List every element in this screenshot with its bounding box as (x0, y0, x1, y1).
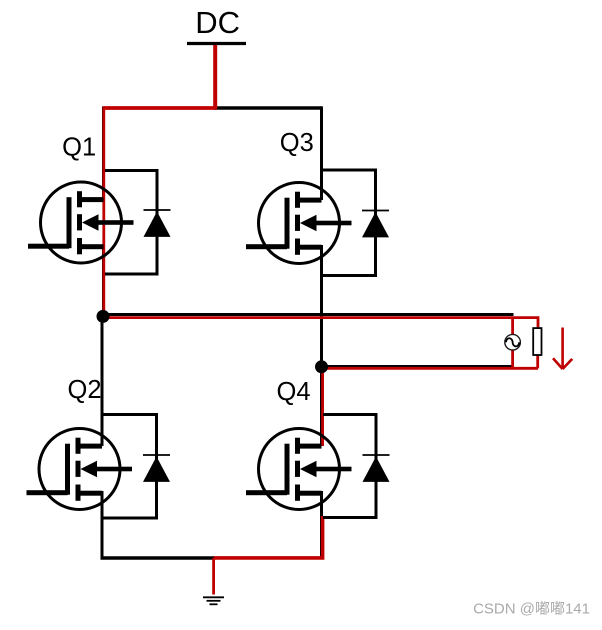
red current path: ground stub (212, 558, 215, 595)
svg-text:Q4: Q4 (276, 378, 310, 406)
red current path: top rail left segment (104, 106, 217, 110)
DC supply bar (187, 42, 246, 45)
svg-text:Q2: Q2 (67, 376, 101, 404)
wire: Q3 drain lead (320, 106, 323, 200)
red current path: AC source branch bottom (511, 350, 514, 369)
wire: Q3 source lead (320, 245, 323, 368)
red current path: node A right to resistor branch (104, 318, 538, 329)
red current path: top rail left then down through Q1 to node A (102, 106, 105, 316)
transistor Q3 (246, 183, 352, 264)
transistor Q4 (246, 429, 352, 510)
ground (203, 597, 224, 604)
red current path: Q4 source to bottom rail to ground stub (214, 516, 323, 558)
body diode D4 (323, 415, 390, 518)
AC source V1 (505, 334, 521, 350)
resistor R1 (load) (533, 328, 541, 355)
wire: node B to load bottom (322, 365, 514, 368)
wire: Q1 drain lead (102, 106, 105, 200)
svg-text:DC: DC (195, 5, 240, 40)
svg-text:CSDN @嘟嘟141: CSDN @嘟嘟141 (473, 601, 590, 618)
red current path: DC stub down to top rail (213, 45, 217, 108)
wire: bottom rail (101, 556, 216, 560)
red current path: resistor bottom to load bottom wire (536, 355, 539, 369)
node A (97, 310, 110, 323)
svg-text:Q1: Q1 (62, 133, 96, 161)
body diode D3 (323, 170, 389, 276)
current direction arrow (553, 328, 572, 370)
node B (315, 360, 328, 373)
svg-text:Q3: Q3 (280, 129, 314, 157)
body diode D1 (105, 171, 171, 275)
wire: Q4 drain lead (320, 367, 323, 446)
wire: node A to load top (103, 313, 514, 316)
red current path: AC source branch top (511, 318, 514, 335)
wire: top rail (214, 106, 322, 110)
wire: Q2 drain lead (101, 316, 104, 446)
body diode D2 (104, 415, 171, 519)
transistor Q2 (27, 429, 133, 510)
transistor Q1 (28, 182, 134, 263)
wire: Q2 source lead (101, 491, 104, 558)
wire: Q4 source lead (320, 491, 323, 558)
wire: Q1 source lead (102, 245, 105, 317)
red current path: load bottom wire back to node B and down to Q4 drain (323, 368, 538, 446)
